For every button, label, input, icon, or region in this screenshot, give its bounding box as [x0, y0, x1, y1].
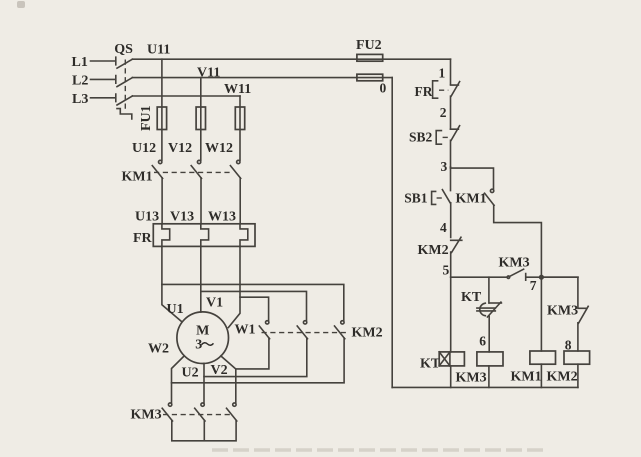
- fuse FU2 upper body: [357, 54, 383, 61]
- wire KM3 star bus: [172, 421, 236, 441]
- switch QS linkage dashed: [124, 60, 126, 111]
- svg-text:KM3: KM3: [499, 255, 530, 270]
- wire V column drop: [200, 78, 202, 161]
- contactor KM1 main contact 2: [197, 160, 200, 163]
- svg-text:5: 5: [443, 263, 450, 278]
- wire L1 input: [91, 57, 116, 65]
- contactor KM3 NO contact horizontal: [507, 276, 510, 279]
- fuse FU2 lower body: [357, 74, 383, 81]
- contactor KM2 NC interlock contact: [451, 237, 462, 277]
- relay FR box: [153, 224, 255, 247]
- wire KM2 contact2 bottom to U2: [204, 338, 307, 376]
- contactor KM2 contact 1: [266, 321, 269, 324]
- relay FR heater element U: [162, 224, 170, 247]
- switch QS pole 3 blade: [117, 96, 132, 105]
- svg-text:U13: U13: [135, 210, 159, 225]
- contactor KM1 main contact 3: [237, 160, 240, 163]
- svg-text:KM3: KM3: [547, 304, 578, 319]
- wire W column drop: [239, 96, 241, 160]
- wire V11 rail: [132, 77, 392, 79]
- wire control left bus: [391, 78, 393, 388]
- button SB1 NO contact: [442, 167, 450, 238]
- contactor KM2 linkage dashed: [262, 332, 350, 334]
- wire KM1 aux to node7: [494, 205, 542, 277]
- wire W below KM1: [239, 178, 241, 224]
- wire KM2 contact1 bottom to V2: [236, 338, 269, 369]
- svg-text:FR: FR: [133, 231, 153, 246]
- svg-text:M: M: [196, 324, 209, 339]
- switch QS pole 1 blade: [117, 59, 132, 68]
- svg-text:L3: L3: [72, 92, 88, 107]
- wire U below KM1: [161, 178, 163, 224]
- relay FR heater element V: [201, 224, 209, 247]
- fuse FU1 body W: [235, 107, 244, 130]
- contactor KM2 contact 3: [341, 321, 344, 324]
- relay FR NC contact: [451, 82, 460, 130]
- svg-text:U1: U1: [167, 302, 184, 317]
- button SB2 NC contact: [451, 126, 460, 167]
- relay FR heater element W: [240, 224, 248, 247]
- contactor KM3 contact 3: [233, 403, 236, 406]
- svg-text:2: 2: [440, 105, 447, 120]
- wire bottom bus: [392, 386, 578, 388]
- scan smudge bottom caption ghost: [212, 448, 545, 452]
- motor M circle: [177, 312, 229, 364]
- svg-text:W2: W2: [148, 341, 169, 356]
- svg-text:KM2: KM2: [352, 325, 383, 340]
- svg-text:6: 6: [479, 334, 486, 349]
- wire V1 lead: [200, 246, 202, 312]
- node 7 junction: [539, 275, 544, 280]
- svg-text:8: 8: [565, 337, 572, 352]
- svg-text:SB2: SB2: [409, 130, 433, 145]
- switch QS handle: [117, 109, 132, 119]
- wire W2 lead: [172, 356, 185, 403]
- timer KT delayed NO contact: [488, 277, 490, 303]
- svg-text:3: 3: [441, 159, 448, 174]
- svg-text:KM2: KM2: [418, 243, 449, 258]
- fuse FU1 body U: [157, 107, 166, 130]
- contactor KM3 contact 1: [168, 403, 171, 406]
- svg-text:L2: L2: [72, 74, 88, 89]
- wire U2 lead: [203, 363, 205, 402]
- svg-text:W11: W11: [224, 82, 251, 97]
- svg-text:V12: V12: [168, 141, 192, 156]
- svg-text:SB1: SB1: [404, 191, 428, 206]
- svg-text:U12: U12: [132, 141, 156, 156]
- switch QS pole 2 blade: [117, 78, 132, 87]
- wire U column drop: [161, 59, 163, 160]
- wire U11 top rail: [132, 58, 450, 60]
- wire V below KM1: [200, 178, 202, 224]
- svg-text:KM2: KM2: [547, 370, 578, 385]
- fuse FU1 body V: [196, 107, 205, 130]
- svg-text:V2: V2: [211, 363, 228, 378]
- contactor KM3 linkage dashed: [163, 414, 231, 416]
- svg-text:QS: QS: [114, 42, 133, 57]
- scan smudge top left: [17, 1, 25, 8]
- coil KM1: [530, 351, 556, 364]
- wire KM2 contact3 bottom to W2: [172, 338, 345, 383]
- wire node5 row: [451, 276, 508, 278]
- svg-text:3: 3: [195, 338, 202, 353]
- wire node7 right branch: [541, 277, 578, 307]
- svg-text:KT: KT: [461, 290, 482, 305]
- contactor KM1 main contact 1: [159, 160, 162, 163]
- svg-text:V13: V13: [170, 210, 194, 225]
- svg-text:FU1: FU1: [139, 105, 154, 131]
- contactor KM2 contact 2: [303, 321, 306, 324]
- svg-text:W12: W12: [205, 141, 233, 156]
- wire L2 input: [91, 76, 116, 84]
- wire U1 lead: [162, 246, 181, 321]
- svg-text:W1: W1: [235, 323, 256, 338]
- wire W1 lead: [228, 246, 240, 327]
- wire control main drop: [450, 59, 452, 84]
- coil KM3: [477, 352, 503, 366]
- svg-text:KM1: KM1: [456, 192, 487, 207]
- svg-text:KM3: KM3: [456, 370, 487, 385]
- coil KM2: [564, 351, 590, 364]
- svg-text:KT: KT: [420, 356, 441, 371]
- svg-text:U2: U2: [182, 365, 199, 380]
- wire W1 to KM2 contact1 link: [240, 297, 269, 320]
- svg-text:FU2: FU2: [356, 38, 382, 53]
- wire V1 to KM2 contact2 link: [201, 291, 307, 320]
- svg-text:V1: V1: [206, 295, 223, 310]
- svg-text:L1: L1: [72, 55, 88, 70]
- wire U1 to KM2 contact3 link: [162, 284, 344, 320]
- svg-text:0: 0: [380, 81, 387, 96]
- svg-text:W13: W13: [208, 210, 236, 225]
- svg-text:4: 4: [440, 220, 447, 235]
- contactor KM1 linkage dashed: [154, 171, 233, 173]
- svg-text:7: 7: [530, 278, 537, 293]
- svg-text:KM1: KM1: [511, 370, 542, 385]
- svg-text:1: 1: [439, 66, 446, 81]
- wire L3 input: [91, 94, 116, 102]
- svg-text:U11: U11: [147, 42, 170, 57]
- wire W11 rail: [132, 95, 240, 97]
- wire node3 branch: [451, 168, 494, 189]
- svg-text:KM1: KM1: [122, 169, 153, 184]
- svg-text:FR: FR: [415, 84, 433, 99]
- svg-text:KM3: KM3: [131, 407, 162, 422]
- wire V2 lead: [221, 356, 236, 403]
- contactor KM3 contact 2: [201, 403, 204, 406]
